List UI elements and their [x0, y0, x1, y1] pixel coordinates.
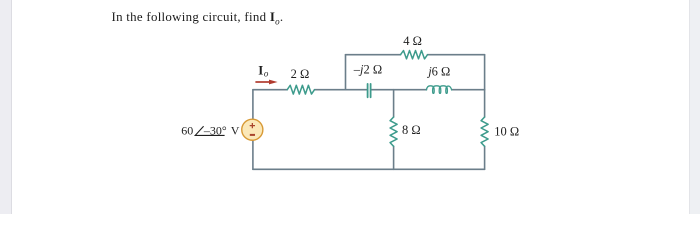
- capacitor -j2 plates: [368, 84, 371, 97]
- source plus sign: [250, 123, 255, 128]
- resistor 2 ohm: [287, 85, 314, 94]
- wire top branch left vertical: [345, 55, 347, 90]
- wire bottom: [253, 168, 485, 170]
- wire 8ohm branch lower: [393, 146, 395, 169]
- svg-text:V: V: [231, 124, 240, 138]
- resistor 4 ohm: [401, 51, 428, 59]
- wire top branch horizontal left of 4ohm: [346, 54, 401, 56]
- wire 10ohm branch lower: [484, 146, 486, 169]
- svg-text:60: 60: [181, 124, 193, 138]
- wire 8ohm branch upper: [393, 90, 395, 117]
- wire top branch right vertical: [484, 55, 486, 90]
- wire top branch horizontal right of 4ohm: [428, 54, 485, 56]
- svg-text:8 Ω: 8 Ω: [402, 123, 421, 137]
- svg-text:4 Ω: 4 Ω: [403, 34, 422, 48]
- title text: [112, 10, 284, 27]
- svg-text:o: o: [264, 69, 269, 79]
- inductor j6 coil: [426, 86, 451, 94]
- wire 10ohm branch upper: [484, 90, 486, 117]
- svg-text:10 Ω: 10 Ω: [494, 125, 519, 139]
- svg-text:j6 Ω: j6 Ω: [426, 65, 450, 79]
- angle symbol: [195, 126, 224, 135]
- svg-text:I: I: [258, 63, 263, 77]
- wire source bottom lead: [252, 140, 254, 169]
- wire main left segment source to 2ohm: [253, 89, 287, 91]
- svg-text:–30°: –30°: [203, 124, 227, 138]
- svg-text:–j2 Ω: –j2 Ω: [353, 62, 382, 76]
- resistor 8 ohm: [390, 117, 397, 146]
- current arrow Io: [255, 80, 277, 85]
- resistor 10 ohm: [481, 117, 488, 146]
- wire capacitor to inductor: [371, 89, 426, 91]
- source minus sign: [250, 134, 255, 136]
- source V1 circle: [242, 119, 263, 140]
- svg-text:2 Ω: 2 Ω: [291, 67, 310, 81]
- wire source top lead: [252, 90, 254, 120]
- wire inductor to right node: [452, 89, 485, 91]
- wire 2ohm to capacitor: [315, 89, 367, 91]
